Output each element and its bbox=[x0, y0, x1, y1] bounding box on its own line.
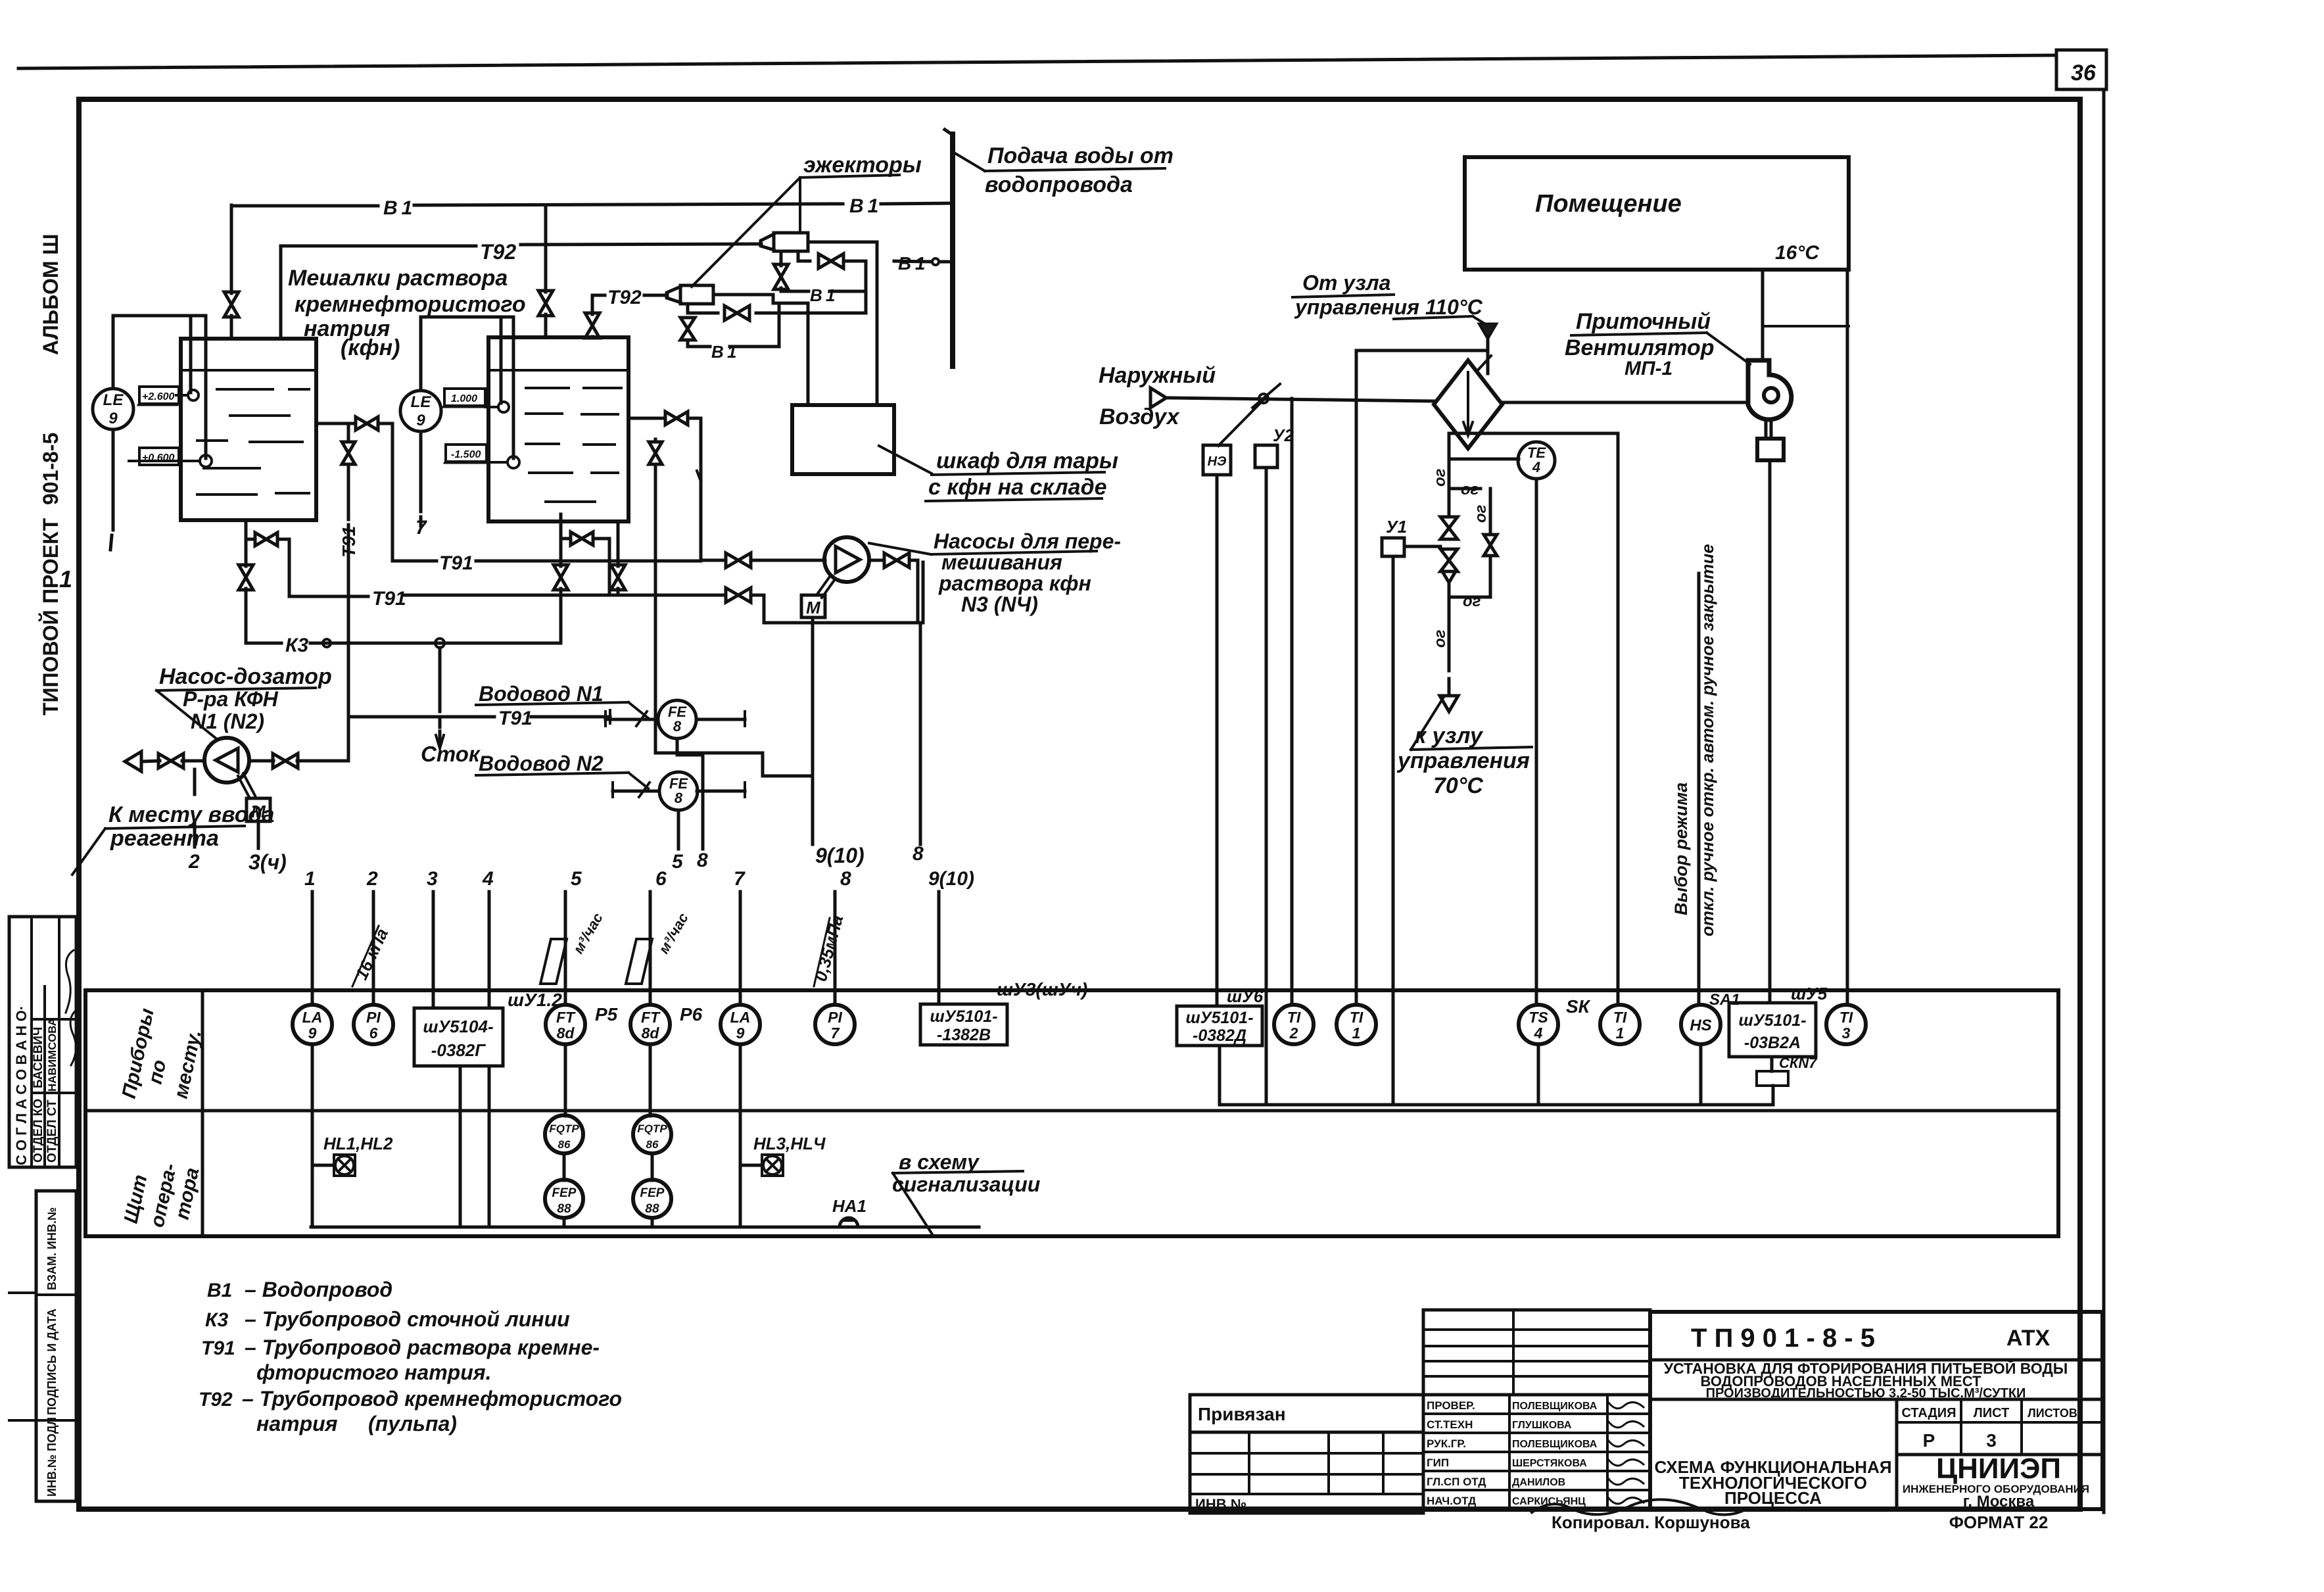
band stem 4 bbox=[482, 868, 494, 1008]
svg-text:2: 2 bbox=[366, 868, 378, 890]
svg-text:N3 (NЧ): N3 (NЧ) bbox=[961, 592, 1038, 616]
rotated label выбор режима bbox=[1671, 783, 1691, 915]
label подача воды от водопровода bbox=[954, 143, 1174, 197]
svg-text:Т91: Т91 bbox=[339, 526, 359, 558]
svg-text:шкаф для тары: шкаф для тары bbox=[936, 448, 1118, 473]
fan drive and motor box bbox=[1757, 419, 1784, 460]
tank 1 liquid dashes bbox=[197, 389, 309, 494]
junction drop between B1 branches bbox=[865, 261, 868, 313]
note 0,35 мПа bbox=[811, 913, 847, 986]
mixing pump N3(N4) bbox=[824, 537, 869, 582]
LE9 tank2 stem to tag 7 bbox=[415, 431, 427, 539]
temperature indicator TI1 bbox=[1337, 1005, 1376, 1044]
svg-text:Т92: Т92 bbox=[199, 1389, 233, 1411]
svg-text:ог: ог bbox=[1472, 504, 1490, 523]
svg-text:ГЛ.СП ОТД: ГЛ.СП ОТД bbox=[1427, 1476, 1486, 1488]
TE4 stem down bbox=[1535, 479, 1538, 1003]
pipe ОГ return with valves bbox=[1440, 433, 1458, 671]
svg-text:– Трубопровод сточной линии: – Трубопровод сточной линии bbox=[245, 1307, 570, 1331]
storage cabinet шкаф для тары bbox=[792, 405, 894, 474]
computing symbol stem5 bbox=[540, 910, 606, 984]
pipe B1 branch to ejector 2 bbox=[688, 304, 866, 320]
tank2 B1 riser valve bbox=[538, 205, 553, 337]
svg-text:7: 7 bbox=[831, 1025, 840, 1042]
legend line T91 bbox=[201, 1336, 600, 1384]
svg-text:Воздух: Воздух bbox=[1099, 404, 1181, 429]
label T91 vertical bbox=[339, 526, 359, 558]
svg-text:В 1: В 1 bbox=[849, 195, 878, 217]
svg-text:8: 8 bbox=[913, 843, 924, 865]
pipe T91 suction header bbox=[392, 553, 825, 567]
svg-text:ог: ог bbox=[1463, 592, 1481, 610]
level alarm LA9 second bbox=[721, 1005, 760, 1044]
svg-text:88: 88 bbox=[557, 1202, 571, 1216]
label B1 bbox=[383, 197, 412, 219]
svg-text:70°С: 70°С bbox=[1433, 773, 1483, 798]
heater outlet header bbox=[1449, 432, 1618, 435]
svg-text:1: 1 bbox=[304, 868, 316, 890]
svg-text:-0382Г: -0382Г bbox=[431, 1040, 486, 1060]
svg-text:ВЗАМ. ИНВ.№: ВЗАМ. ИНВ.№ bbox=[45, 1207, 59, 1290]
svg-text:НL1,НL2: НL1,НL2 bbox=[323, 1134, 393, 1153]
label T91 bbox=[372, 588, 406, 610]
svg-text:FЕР: FЕР bbox=[552, 1186, 577, 1200]
svg-text:Привязан: Привязан bbox=[1198, 1404, 1286, 1424]
band stem 9(10) bbox=[928, 868, 974, 1004]
svg-text:9: 9 bbox=[736, 1025, 745, 1042]
LE9 tank1 capillary loop bbox=[113, 316, 206, 458]
svg-text:-1382В: -1382В bbox=[937, 1026, 991, 1044]
svg-text:шУ5101-: шУ5101- bbox=[1185, 1009, 1253, 1027]
svg-text:8: 8 bbox=[840, 868, 851, 890]
У1 stem down bbox=[1392, 556, 1395, 1105]
svg-text:ОТДЕЛ СТ: ОТДЕЛ СТ bbox=[45, 1099, 59, 1163]
svg-text:LA: LA bbox=[730, 1009, 751, 1026]
label ОТДЕЛ СТ / НАВИМСОВА bbox=[45, 1018, 59, 1163]
svg-text:N1 (N2): N1 (N2) bbox=[191, 710, 264, 733]
svg-text:в схему: в схему bbox=[899, 1150, 980, 1174]
svg-text:откл. ручное откр. автом. ручн: откл. ручное откр. автом. ручное закрыти… bbox=[1697, 544, 1717, 936]
svg-text:Подача воды от: Подача воды от bbox=[987, 143, 1174, 168]
tank2 T92 riser valve bbox=[585, 295, 600, 338]
svg-text:6: 6 bbox=[655, 868, 667, 890]
У2 stem down bbox=[1265, 468, 1268, 1105]
svg-text:– Трубопровод раствора кремн: – Трубопровод раствора кремне- bbox=[245, 1336, 600, 1359]
signature long squiggle bbox=[1532, 1499, 1742, 1514]
svg-text:Насос-дозатор: Насос-дозатор bbox=[159, 664, 332, 689]
svg-text:PI: PI bbox=[366, 1009, 381, 1026]
svg-text:АЛЬБОМ Ш: АЛЬБОМ Ш bbox=[39, 233, 62, 355]
relay СКН7 bbox=[1757, 1055, 1818, 1105]
svg-text:МП-1: МП-1 bbox=[1624, 358, 1672, 379]
svg-text:шУ5101-: шУ5101- bbox=[1738, 1011, 1806, 1030]
tag line 8 bbox=[913, 623, 924, 865]
svg-text:– Трубопровод кремнефтористог: – Трубопровод кремнефтористого bbox=[242, 1387, 622, 1411]
svg-text:7: 7 bbox=[734, 868, 746, 890]
svg-text:сигнализации: сигнализации bbox=[892, 1172, 1040, 1196]
heat exchanger (air heater) bbox=[1434, 356, 1502, 448]
level alarm LA9 bbox=[293, 1005, 332, 1044]
svg-text:Наружный: Наружный bbox=[1099, 363, 1216, 388]
label ШУ5 bbox=[1791, 984, 1828, 1003]
pipe T91 second header bbox=[289, 588, 915, 623]
svg-text:СТ.ТЕХН: СТ.ТЕХН bbox=[1427, 1418, 1473, 1431]
control box ШУ5101-03В2А bbox=[1729, 1003, 1816, 1057]
ejector 2 bbox=[667, 285, 713, 304]
label эжекторы bbox=[800, 153, 922, 178]
signal collector wire bbox=[311, 1226, 979, 1229]
svg-text:88: 88 bbox=[645, 1202, 659, 1216]
label T91 bbox=[498, 708, 533, 729]
svg-text:4: 4 bbox=[482, 868, 494, 890]
hot water inlet arrow bbox=[1479, 324, 1497, 374]
band stem 5 bbox=[565, 868, 582, 1005]
tag line 9(10) bbox=[813, 617, 865, 867]
svg-text:по: по bbox=[145, 1058, 171, 1086]
label от узла управления 110°C bbox=[1292, 271, 1484, 324]
approval strip box bbox=[9, 917, 76, 1167]
solenoid НЭ box bbox=[1203, 445, 1231, 475]
svg-text:м³/час: м³/час bbox=[570, 910, 606, 957]
band stem 2 bbox=[366, 868, 378, 1005]
hand switch HS bbox=[1681, 991, 1740, 1044]
svg-text:ИНВ.№ ПОДЛ: ИНВ.№ ПОДЛ bbox=[45, 1417, 59, 1497]
tank1 overflow with valve bbox=[316, 417, 392, 430]
svg-text:Вентилятор: Вентилятор bbox=[1565, 335, 1715, 360]
svg-text:ТS: ТS bbox=[1529, 1009, 1548, 1026]
svg-text:SК: SК bbox=[1566, 996, 1591, 1017]
svg-text:месту.: месту. bbox=[170, 1028, 206, 1100]
svg-text:86: 86 bbox=[646, 1138, 659, 1151]
svg-text:3: 3 bbox=[1842, 1025, 1851, 1042]
svg-text:ПРОИЗВОДИТЕЛЬНОСТЬЮ 3,2-50 ТЫС: ПРОИЗВОДИТЕЛЬНОСТЬЮ 3,2-50 ТЫС.М³/СУТКИ bbox=[1706, 1386, 2026, 1401]
svg-text:36: 36 bbox=[2071, 60, 2097, 85]
svg-text:Р: Р bbox=[1923, 1430, 1935, 1451]
title block attach table Привязан bbox=[1190, 1395, 1423, 1513]
svg-text:4: 4 bbox=[1534, 1025, 1543, 1042]
svg-text:Р5: Р5 bbox=[595, 1004, 618, 1025]
svg-text:эжекторы: эжекторы bbox=[803, 153, 922, 178]
main drawing frame bbox=[79, 99, 2080, 1509]
svg-text:К месту ввода: К месту ввода bbox=[108, 802, 274, 827]
instrument band box bbox=[85, 990, 2058, 1236]
label ШУ1.2 bbox=[508, 990, 562, 1010]
note 16 кПа bbox=[351, 925, 392, 986]
level transmitter LE9 tank2 bbox=[400, 391, 441, 431]
svg-text:3: 3 bbox=[1986, 1430, 1997, 1451]
box drops to signal wire bbox=[460, 1066, 489, 1227]
supply fan МП-1 bbox=[1748, 360, 1791, 420]
page right trim edge bbox=[2102, 89, 2106, 1512]
flow element FE8 #2 bbox=[659, 772, 698, 810]
label шкаф для тары с КФН на складе bbox=[926, 448, 1118, 501]
svg-text:(кфн): (кфн) bbox=[341, 335, 400, 360]
svg-text:FQТР: FQТР bbox=[549, 1122, 579, 1135]
recorder FEP88 right bbox=[633, 1153, 671, 1227]
tank2 left drain valve bbox=[554, 514, 568, 643]
svg-text:ПРОВЕР.: ПРОВЕР. bbox=[1427, 1399, 1475, 1412]
svg-text:кремнефтористого: кремнефтористого bbox=[295, 292, 526, 317]
temperature sensor TE4 bbox=[1449, 442, 1555, 479]
control box ШУ5104-0382Г bbox=[414, 1008, 503, 1066]
svg-text:ПРОЦЕССА: ПРОЦЕССА bbox=[1724, 1488, 1822, 1508]
svg-text:натрия: натрия bbox=[256, 1412, 338, 1435]
level transmitter LE9 tank1 bbox=[93, 389, 133, 429]
svg-text:В 1: В 1 bbox=[711, 342, 736, 362]
flow element FE8 #1 bbox=[658, 700, 696, 738]
stamp footer labels bbox=[1552, 1512, 2048, 1532]
pump discharge valve bbox=[869, 553, 918, 567]
line to TI1 bbox=[1355, 350, 1358, 1003]
ejector 1 discharge down to cabinet bbox=[808, 242, 877, 405]
svg-text:ог: ог bbox=[1431, 468, 1449, 487]
svg-text:ГИП: ГИП bbox=[1427, 1457, 1449, 1469]
svg-text:8: 8 bbox=[697, 850, 708, 871]
svg-text:ТИПОВОЙ: ТИПОВОЙ bbox=[39, 610, 62, 715]
rotated project label bbox=[39, 433, 62, 715]
pipe 110C across bbox=[1356, 349, 1488, 352]
svg-text:Приточный: Приточный bbox=[1576, 309, 1711, 334]
top trim line bbox=[18, 55, 2056, 68]
pipe B1 branch to ejector 1 bbox=[798, 251, 953, 268]
svg-text:ПОДПИСЬ И ДАТА: ПОДПИСЬ И ДАТА bbox=[45, 1309, 59, 1415]
band header приборы по месту bbox=[118, 1006, 206, 1100]
ejector leader lines bbox=[692, 178, 800, 287]
drain to стook bbox=[436, 648, 444, 748]
flow transmitter FT8d P5 bbox=[546, 1004, 618, 1044]
svg-text:г. Москва: г. Москва bbox=[1963, 1493, 2035, 1510]
svg-text:– Водопровод: – Водопровод bbox=[245, 1278, 392, 1301]
band stem 7 bbox=[734, 868, 746, 1005]
label СОГЛАСОВАНО bbox=[13, 1005, 30, 1165]
svg-text:с кфн на складе: с кфн на складе bbox=[928, 475, 1107, 500]
svg-text:ТI: ТI bbox=[1350, 1009, 1364, 1026]
svg-text:Т91: Т91 bbox=[201, 1338, 235, 1359]
svg-text:2: 2 bbox=[188, 851, 200, 873]
label приточный вентилятор МП-1 bbox=[1565, 309, 1750, 379]
probe node 1.000 bbox=[443, 389, 509, 412]
tank1 T92 riser bbox=[279, 246, 283, 339]
dosing pump N1(N2) bbox=[204, 738, 249, 783]
svg-text:2: 2 bbox=[1289, 1025, 1298, 1042]
svg-text:М: М bbox=[806, 598, 821, 617]
svg-text:1: 1 bbox=[1352, 1025, 1361, 1042]
outside air inlet arrow bbox=[1150, 388, 1434, 408]
svg-text:ШЕРСТЯКОВА: ШЕРСТЯКОВА bbox=[1512, 1458, 1587, 1469]
svg-text:реагента: реагента bbox=[110, 826, 219, 851]
temperature indicator TI2 bbox=[1274, 1005, 1314, 1044]
rotated label откл ручное откр автом ручное закрытие bbox=[1697, 544, 1717, 936]
duct room to fan bbox=[1763, 270, 1849, 360]
svg-text:ГЛУШКОВА: ГЛУШКОВА bbox=[1512, 1420, 1572, 1431]
svg-text:SА1: SА1 bbox=[1709, 991, 1740, 1009]
FE1 tag drop to 8 bbox=[677, 738, 708, 871]
svg-text:FQТР: FQТР bbox=[637, 1122, 667, 1135]
svg-text:9(10): 9(10) bbox=[815, 844, 865, 867]
legend line B1 bbox=[207, 1278, 392, 1301]
LE9 tank2 capillary loop bbox=[421, 317, 513, 458]
tank1 side drain branch valve bbox=[246, 533, 289, 596]
overflow downcomer to T91 bbox=[391, 423, 394, 561]
svg-text:1: 1 bbox=[59, 566, 72, 592]
tank2 right drain valve bbox=[611, 521, 625, 595]
svg-text:LE: LE bbox=[103, 391, 124, 409]
svg-text:LE: LE bbox=[411, 393, 432, 411]
pipe B1 header bbox=[231, 203, 953, 206]
svg-text:Т92: Т92 bbox=[607, 287, 642, 308]
flow element FE8 line 1 bbox=[605, 712, 745, 726]
legend line K3 bbox=[205, 1307, 570, 1331]
labels ог on bypass bbox=[1461, 481, 1490, 610]
line to TI1 second bbox=[1617, 433, 1620, 1003]
label ШУ3(ШУ4) bbox=[997, 979, 1087, 1000]
svg-text:-03В2А: -03В2А bbox=[1744, 1034, 1801, 1052]
line room to TI3 bbox=[1846, 270, 1849, 1003]
svg-text:Мешалки раствора: Мешалки раствора bbox=[288, 266, 508, 291]
svg-text:8: 8 bbox=[675, 790, 683, 806]
label наружный воздух bbox=[1099, 363, 1216, 429]
svg-text:НА1: НА1 bbox=[832, 1196, 866, 1216]
svg-text:шУ5: шУ5 bbox=[1791, 984, 1828, 1003]
title block main stamp bbox=[1650, 1312, 2102, 1509]
svg-text:Т П 9 0 1 - 8 - 5: Т П 9 0 1 - 8 - 5 bbox=[1691, 1324, 1875, 1353]
svg-text:шУ5104-: шУ5104- bbox=[423, 1017, 493, 1036]
svg-text:К3: К3 bbox=[285, 635, 308, 656]
svg-text:8: 8 bbox=[673, 718, 682, 735]
svg-text:В 1: В 1 bbox=[810, 285, 835, 305]
pump motor M bbox=[801, 577, 835, 617]
LE9 tank1 stem to tag 1 bbox=[59, 429, 113, 592]
label Сток bbox=[421, 742, 481, 766]
svg-text:Водовод N2: Водовод N2 bbox=[479, 752, 604, 775]
bypass loop with valve bbox=[1449, 489, 1497, 597]
ejector 1 bbox=[761, 233, 808, 251]
svg-text:9: 9 bbox=[416, 412, 425, 429]
tank2 overflow drop bbox=[628, 412, 701, 560]
duct tap to TI2 bbox=[1291, 398, 1294, 1003]
tag line 3(4) bbox=[249, 821, 287, 874]
svg-text:1.000: 1.000 bbox=[451, 393, 477, 404]
label ШУ6 bbox=[1227, 986, 1264, 1006]
svg-text:СКN7: СКN7 bbox=[1779, 1055, 1818, 1071]
band stem 3 bbox=[427, 868, 438, 1008]
svg-text:Приборы: Приборы bbox=[118, 1006, 158, 1100]
svg-text:86: 86 bbox=[558, 1138, 571, 1151]
pipe T91 branch header with end tick bbox=[348, 710, 610, 723]
alarm bell НА1 bbox=[832, 1196, 866, 1227]
svg-text:Сток: Сток bbox=[421, 742, 481, 766]
probe node +0.600 bbox=[129, 448, 212, 467]
tank 1 (мешалка N1) bbox=[181, 339, 316, 520]
svg-text:8d: 8d bbox=[557, 1025, 575, 1042]
FE2 tag drop to 5 bbox=[672, 810, 684, 873]
svg-text:ИНВ №: ИНВ № bbox=[1195, 1496, 1246, 1512]
svg-text:АТХ: АТХ bbox=[2006, 1326, 2051, 1351]
svg-text:3(ч): 3(ч) bbox=[249, 850, 287, 874]
svg-text:В 1: В 1 bbox=[898, 253, 925, 274]
computing symbol stem6 bbox=[626, 910, 692, 984]
ejector1 bottom valve line bbox=[774, 251, 866, 291]
label T91 bbox=[439, 552, 473, 574]
svg-text:СТАДИЯ: СТАДИЯ bbox=[1901, 1406, 1956, 1420]
label B1 bbox=[898, 253, 925, 274]
svg-text:раствора кфн: раствора кфн bbox=[938, 571, 1091, 595]
rotated album label bbox=[39, 233, 62, 355]
duct heat exchanger to fan bbox=[1502, 401, 1748, 404]
svg-text:водопровода: водопровода bbox=[985, 172, 1133, 197]
svg-text:С О Г Л А С О В А Н О·: С О Г Л А С О В А Н О· bbox=[13, 1005, 30, 1165]
label ОТДЕЛ КО / БАСЕВИЧ bbox=[32, 1027, 45, 1163]
label водовод N2 bbox=[476, 752, 648, 788]
control box ШУ5101-1382В bbox=[920, 1004, 1007, 1045]
stem LA9 to lamps bbox=[311, 1044, 314, 1227]
svg-text:1: 1 bbox=[1616, 1025, 1624, 1042]
svg-text:управления 110°С: управления 110°С bbox=[1294, 295, 1483, 319]
svg-text:+0.600: +0.600 bbox=[142, 452, 174, 464]
probe node +2.600 bbox=[138, 387, 199, 405]
ejector 2 discharge to cabinet bbox=[713, 295, 808, 405]
svg-text:шУ3(шУч): шУ3(шУч) bbox=[997, 979, 1087, 1000]
НЭ stem down bbox=[1216, 475, 1219, 1006]
water supply main (подача воды) bbox=[945, 130, 953, 366]
fan motor stem down bbox=[1768, 460, 1772, 1003]
temperature indicator TI1b bbox=[1600, 1005, 1640, 1044]
ejector2 bottom valve loop bbox=[680, 303, 779, 347]
label B1 bbox=[810, 285, 835, 305]
sheet number box 36 bbox=[2056, 50, 2106, 89]
label водовод N1 bbox=[476, 682, 648, 718]
svg-text:шУ5101-: шУ5101- bbox=[930, 1007, 997, 1026]
svg-text:5: 5 bbox=[672, 851, 684, 873]
dosing pump discharge valve and arrow bbox=[125, 752, 204, 771]
svg-text:ФОРМАТ 22: ФОРМАТ 22 bbox=[1949, 1512, 2049, 1532]
svg-text:Т92: Т92 bbox=[480, 240, 516, 264]
svg-text:К3: К3 bbox=[205, 1309, 228, 1331]
svg-text:LA: LA bbox=[302, 1009, 323, 1026]
label B1 bbox=[711, 342, 736, 362]
svg-text:шУ6: шУ6 bbox=[1227, 986, 1264, 1006]
band header щит оператора bbox=[120, 1161, 204, 1229]
label K3 bbox=[285, 635, 308, 656]
actuator У2 box bbox=[1255, 425, 1294, 468]
svg-text:ПОЛЕВЩИКОВА: ПОЛЕВЩИКОВА bbox=[1512, 1439, 1598, 1450]
svg-text:Т91: Т91 bbox=[439, 552, 473, 574]
svg-text:НL3,НLЧ: НL3,НLЧ bbox=[753, 1134, 826, 1153]
svg-text:РУК.ГР.: РУК.ГР. bbox=[1427, 1437, 1466, 1450]
actuator У1 box bbox=[1382, 517, 1440, 556]
label в схему сигнализации bbox=[892, 1150, 1040, 1236]
integrator FQTP86 left bbox=[545, 1044, 583, 1153]
tank1 B1 riser valve bbox=[224, 205, 239, 339]
svg-text:5: 5 bbox=[571, 868, 582, 890]
tank 2 (мешалка N7) bbox=[488, 337, 628, 521]
svg-text:НS: НS bbox=[1690, 1017, 1711, 1034]
svg-text:В 1: В 1 bbox=[383, 197, 412, 219]
svg-text:ОТДЕЛ КО: ОТДЕЛ КО bbox=[32, 1099, 45, 1163]
tank1 bottom drain valve bbox=[239, 520, 253, 643]
hand switch stem with mode annotation bbox=[1697, 573, 1701, 1003]
svg-text:(пульпа): (пульпа) bbox=[368, 1412, 457, 1435]
svg-text:У1: У1 bbox=[1386, 517, 1407, 537]
svg-text:ПОЛЕВЩИКОВА: ПОЛЕВЩИКОВА bbox=[1512, 1401, 1598, 1412]
stamp scheme name bbox=[1654, 1457, 1891, 1508]
instrument row collector wire bbox=[1220, 1044, 1773, 1105]
damper junction with У2 leader bbox=[1218, 384, 1280, 446]
title block signature rows bbox=[1423, 1395, 1650, 1509]
labels ог on return bbox=[1431, 468, 1449, 648]
title block upper rows bbox=[1423, 1310, 1650, 1395]
pressure gauge PI7 bbox=[815, 1005, 855, 1044]
